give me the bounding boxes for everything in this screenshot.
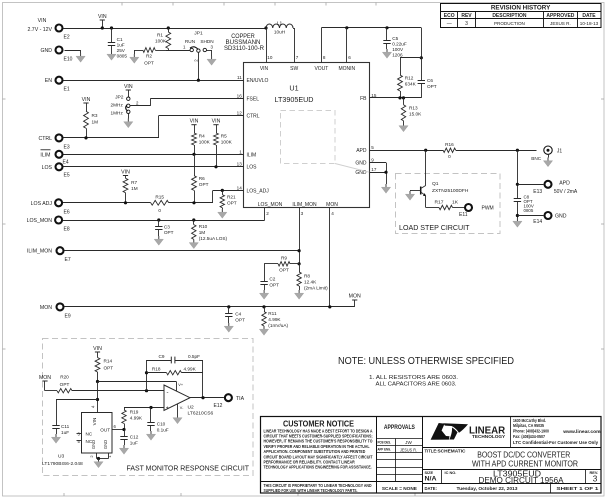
svg-text:R20: R20 bbox=[60, 375, 69, 380]
svg-text:SUPPLIED FOR USE WITH LINEAR T: SUPPLIED FOR USE WITH LINEAR TECHNOLOGY … bbox=[264, 488, 358, 493]
resistor R10 bbox=[189, 220, 227, 249]
resistor R14 bbox=[93, 346, 113, 382]
svg-text:E1: E1 bbox=[64, 87, 70, 93]
svg-text:OPT: OPT bbox=[144, 61, 154, 66]
svg-text:ILIM_MON: ILIM_MON bbox=[27, 249, 52, 255]
svg-text:BNC: BNC bbox=[531, 156, 542, 161]
wire EN row bbox=[64, 79, 244, 82]
svg-text:JESUS R.: JESUS R. bbox=[400, 447, 417, 452]
terminal E6 LOS ADJ bbox=[31, 199, 70, 215]
svg-text:GND: GND bbox=[91, 440, 96, 449]
svg-text:EN/UVLO: EN/UVLO bbox=[247, 78, 269, 84]
svg-text:R17: R17 bbox=[435, 199, 444, 205]
svg-text:R18: R18 bbox=[152, 366, 161, 371]
svg-text:Q1: Q1 bbox=[432, 181, 439, 187]
svg-text:OPT: OPT bbox=[164, 230, 174, 235]
wire LOS_ADJ row bbox=[63, 189, 244, 205]
U1 exposed pad bbox=[281, 111, 370, 173]
svg-text:1M: 1M bbox=[131, 186, 138, 191]
svg-text:100K: 100K bbox=[155, 39, 167, 44]
size ic rev row bbox=[423, 470, 602, 485]
svg-text:+: + bbox=[166, 406, 169, 412]
wire VOUT rail bbox=[321, 28, 421, 63]
svg-text:R8: R8 bbox=[304, 274, 310, 279]
svg-text:(2mA Limit): (2mA Limit) bbox=[304, 286, 328, 291]
terminal E9 MON bbox=[40, 303, 71, 319]
capacitor C10 bbox=[146, 408, 168, 441]
svg-text:5: 5 bbox=[371, 145, 374, 150]
resistor R3 bbox=[82, 97, 98, 138]
svg-text:FB: FB bbox=[360, 96, 367, 102]
resistor R20 bbox=[45, 375, 164, 393]
svg-text:SHDN: SHDN bbox=[200, 39, 213, 44]
svg-text:MON: MON bbox=[39, 375, 51, 381]
terminal E13 APD bbox=[517, 180, 578, 195]
svg-text:ZXTN25100DFH: ZXTN25100DFH bbox=[432, 188, 469, 194]
svg-text:CTRL: CTRL bbox=[247, 113, 260, 119]
resistor R18 bbox=[145, 366, 203, 398]
resistor R5 bbox=[212, 119, 233, 167]
terminal E3 CTRL bbox=[38, 134, 69, 150]
svg-text:14: 14 bbox=[237, 185, 243, 190]
svg-text:OPT: OPT bbox=[60, 382, 70, 387]
svg-text:DATE: DATE bbox=[582, 13, 596, 19]
resistor R13 bbox=[399, 98, 422, 132]
svg-text:MON: MON bbox=[349, 294, 361, 300]
svg-text:OPT: OPT bbox=[269, 283, 279, 288]
svg-text:-: - bbox=[167, 390, 169, 396]
svg-text:PWM: PWM bbox=[482, 205, 494, 211]
svg-text:VIN: VIN bbox=[93, 346, 102, 352]
svg-text:E14: E14 bbox=[533, 219, 542, 225]
svg-text:3: 3 bbox=[301, 211, 304, 216]
svg-text:VIN: VIN bbox=[121, 170, 130, 176]
svg-text:APPROVED: APPROVED bbox=[546, 13, 574, 19]
svg-text:VIN: VIN bbox=[260, 66, 269, 72]
capacitor C1 bbox=[107, 26, 128, 60]
svg-text:E11: E11 bbox=[459, 212, 468, 218]
svg-text:50V / 2mA: 50V / 2mA bbox=[554, 189, 578, 195]
svg-text:ILIM_MON: ILIM_MON bbox=[292, 202, 317, 208]
svg-text:FAST MONITOR RESPONSE CIRCUIT: FAST MONITOR RESPONSE CIRCUIT bbox=[127, 464, 250, 473]
svg-text:17: 17 bbox=[371, 167, 377, 172]
terminal E4 ILIM bbox=[40, 150, 68, 166]
svg-text:C9: C9 bbox=[159, 354, 165, 359]
IC U3 LT1790 bbox=[42, 382, 117, 468]
svg-text:WITH APD CURRENT MONITOR: WITH APD CURRENT MONITOR bbox=[472, 460, 578, 469]
svg-text:EN: EN bbox=[45, 78, 52, 84]
svg-text:4.99K: 4.99K bbox=[184, 366, 197, 371]
svg-text:U1: U1 bbox=[289, 84, 298, 93]
svg-text:V+: V+ bbox=[178, 383, 184, 387]
transistor Q1 ZXTN25100DFH bbox=[405, 150, 468, 207]
svg-text:APP ENG.: APP ENG. bbox=[378, 447, 392, 452]
svg-text:APPROVALS: APPROVALS bbox=[384, 424, 416, 431]
svg-text:LT3905EUD: LT3905EUD bbox=[275, 95, 314, 104]
svg-text:634K: 634K bbox=[405, 82, 417, 87]
load step circuit box bbox=[396, 174, 501, 234]
svg-text:LOS ADJ: LOS ADJ bbox=[31, 201, 53, 207]
terminal E1 EN bbox=[45, 77, 70, 93]
approvals block bbox=[376, 424, 422, 491]
label copper bussmann bbox=[224, 34, 265, 52]
svg-text:NOTE: UNLESS OTHERWISE SPECIFI: NOTE: UNLESS OTHERWISE SPECIFIED bbox=[338, 356, 514, 367]
svg-text:SD3110-100-R: SD3110-100-R bbox=[224, 46, 265, 52]
fast monitor circuit box bbox=[43, 339, 254, 476]
svg-text:E7: E7 bbox=[65, 257, 71, 263]
wire APD row bbox=[369, 149, 536, 152]
resistor R11 bbox=[259, 307, 288, 335]
svg-text:TIA: TIA bbox=[236, 396, 245, 402]
svg-text:1uF: 1uF bbox=[117, 43, 125, 48]
svg-text:Milpitas, CA 95035: Milpitas, CA 95035 bbox=[513, 423, 544, 428]
svg-text:C3: C3 bbox=[164, 225, 170, 230]
node MON flag 2 bbox=[39, 375, 51, 391]
svg-text:E5: E5 bbox=[64, 173, 70, 179]
svg-text:JW: JW bbox=[405, 440, 412, 445]
svg-text:0.5pF: 0.5pF bbox=[188, 354, 200, 359]
svg-text:VIN: VIN bbox=[98, 14, 107, 20]
terminal E8 LOS_MON bbox=[27, 217, 70, 233]
svg-text:8: 8 bbox=[323, 55, 326, 60]
svg-text:www.linear.com: www.linear.com bbox=[562, 429, 601, 435]
svg-text:10-18-13: 10-18-13 bbox=[580, 21, 599, 26]
wire MON row bbox=[65, 208, 355, 309]
wire E10 to ground bbox=[65, 50, 86, 62]
svg-text:PRODUCTION: PRODUCTION bbox=[494, 21, 525, 26]
svg-text:TECHNOLOGY APPLICATIONS ENGINE: TECHNOLOGY APPLICATIONS ENGINEERING FOR … bbox=[264, 465, 372, 470]
wire plus input bbox=[124, 406, 164, 409]
resistor R12 bbox=[398, 56, 423, 98]
svg-text:0805: 0805 bbox=[524, 208, 534, 213]
svg-text:N/A: N/A bbox=[425, 476, 437, 483]
svg-text:CUSTOMER NOTICE: CUSTOMER NOTICE bbox=[283, 420, 354, 429]
svg-text:2: 2 bbox=[266, 211, 269, 216]
svg-text:GND: GND bbox=[103, 440, 108, 449]
svg-text:ILIM: ILIM bbox=[40, 152, 50, 158]
wire VIN rail bbox=[64, 28, 267, 30]
svg-text:1206: 1206 bbox=[392, 53, 403, 58]
svg-text:15.0K: 15.0K bbox=[409, 112, 422, 117]
svg-text:RUN: RUN bbox=[185, 39, 195, 44]
resistor R6 bbox=[192, 154, 209, 203]
wire C8 column bbox=[513, 150, 522, 227]
svg-text:0: 0 bbox=[448, 154, 451, 159]
capacitor C9 bbox=[147, 354, 204, 391]
wire op-amp output bbox=[190, 396, 224, 399]
resistor R2 bbox=[130, 48, 166, 66]
svg-text:0805: 0805 bbox=[117, 54, 128, 59]
svg-text:E6: E6 bbox=[64, 209, 70, 215]
svg-text:FSEL: FSEL bbox=[247, 96, 260, 102]
svg-text:E10: E10 bbox=[64, 57, 73, 63]
svg-text:GND: GND bbox=[355, 161, 367, 167]
svg-text:E3: E3 bbox=[64, 144, 70, 150]
svg-text:4.99K: 4.99K bbox=[268, 317, 281, 322]
svg-text:LOS_ADJ: LOS_ADJ bbox=[247, 188, 270, 194]
wire pin10 VIN bbox=[266, 28, 268, 63]
svg-text:C4: C4 bbox=[235, 312, 241, 317]
svg-text:C10: C10 bbox=[157, 422, 166, 427]
svg-text:SW: SW bbox=[290, 66, 298, 72]
svg-text:SHEET 1 OF 1: SHEET 1 OF 1 bbox=[556, 486, 599, 491]
svg-text:R1: R1 bbox=[157, 33, 163, 38]
svg-text:1M: 1M bbox=[199, 230, 206, 235]
resistor R1 bbox=[155, 26, 171, 50]
svg-text:100K: 100K bbox=[199, 140, 211, 145]
svg-text:1MHz: 1MHz bbox=[111, 111, 124, 116]
svg-text:CTRL: CTRL bbox=[38, 136, 52, 142]
svg-text:0.22uF: 0.22uF bbox=[392, 42, 407, 47]
svg-text:JP1: JP1 bbox=[194, 31, 203, 37]
node VIN flag bbox=[98, 14, 107, 30]
svg-text:4: 4 bbox=[331, 211, 334, 216]
svg-text:SCALE = NONE: SCALE = NONE bbox=[382, 486, 417, 491]
jumper JP1 bbox=[166, 31, 216, 81]
svg-text:E8: E8 bbox=[64, 227, 70, 233]
svg-text:R10: R10 bbox=[199, 224, 208, 229]
svg-text:R7: R7 bbox=[131, 180, 137, 185]
svg-text:C12: C12 bbox=[130, 435, 139, 440]
svg-text:R13: R13 bbox=[409, 106, 418, 111]
wire U3 ground pins bbox=[94, 453, 109, 468]
svg-text:C1: C1 bbox=[117, 37, 123, 42]
wire LOS_MON row bbox=[63, 208, 265, 222]
svg-text:R11: R11 bbox=[268, 311, 277, 316]
svg-text:2MHz: 2MHz bbox=[111, 103, 124, 108]
wire U3 vin feed bbox=[56, 400, 98, 426]
terminal E5 LOS bbox=[42, 163, 70, 178]
jumper JP2 bbox=[111, 84, 139, 128]
resistor R15 bbox=[151, 195, 169, 214]
wire CTRL row bbox=[64, 115, 244, 139]
terminal E2 VIN bbox=[27, 18, 69, 41]
wire FSEL row bbox=[130, 98, 244, 106]
resistor R7 bbox=[121, 170, 138, 203]
svg-text:REV: REV bbox=[461, 13, 472, 19]
svg-text:(12.5uA LOS): (12.5uA LOS) bbox=[199, 236, 228, 241]
svg-text:APD: APD bbox=[559, 180, 570, 186]
svg-text:MON: MON bbox=[326, 202, 338, 208]
wire pin6 MONIN bbox=[345, 26, 348, 63]
revision history table bbox=[441, 4, 602, 28]
svg-text:ALL CAPACITORS ARE 0603.: ALL CAPACITORS ARE 0603. bbox=[376, 382, 457, 388]
svg-text:E2: E2 bbox=[64, 35, 70, 41]
capacitor C6 bbox=[418, 58, 437, 98]
svg-text:3: 3 bbox=[593, 475, 598, 484]
terminal E7 ILIM_MON bbox=[27, 247, 71, 263]
svg-text:R6: R6 bbox=[199, 176, 205, 181]
svg-text:12: 12 bbox=[237, 110, 243, 115]
inductor L1 bbox=[264, 21, 293, 35]
svg-text:R16: R16 bbox=[445, 142, 454, 147]
svg-text:U2: U2 bbox=[188, 404, 195, 410]
svg-text:1M: 1M bbox=[92, 120, 99, 125]
resistor R4 bbox=[190, 119, 211, 155]
svg-text:SCHEMATIC: SCHEMATIC bbox=[438, 448, 467, 453]
svg-text:9: 9 bbox=[371, 158, 374, 163]
svg-text:VIN: VIN bbox=[190, 119, 199, 125]
capacitor C2 bbox=[260, 264, 280, 299]
svg-text:LOAD STEP CIRCUIT: LOAD STEP CIRCUIT bbox=[399, 223, 470, 232]
svg-text:C6: C6 bbox=[427, 78, 433, 83]
svg-text:OUT: OUT bbox=[100, 428, 110, 433]
svg-text:Phone: (408)432-1900: Phone: (408)432-1900 bbox=[513, 429, 549, 434]
svg-text:OPT: OPT bbox=[279, 268, 289, 273]
svg-text:0.1uF: 0.1uF bbox=[157, 428, 169, 433]
svg-text:LTC Confidential-For Customer: LTC Confidential-For Customer Use Only bbox=[513, 440, 599, 445]
svg-text:16: 16 bbox=[237, 93, 243, 98]
svg-text:JP2: JP2 bbox=[115, 94, 124, 100]
op-amp U2 LT6210CS6 bbox=[164, 383, 214, 424]
svg-text:1uF: 1uF bbox=[130, 441, 138, 446]
connector J1 BNC bbox=[531, 146, 562, 167]
svg-text:VIN: VIN bbox=[82, 97, 91, 103]
svg-text:VOUT: VOUT bbox=[314, 66, 328, 72]
svg-text:OPT: OPT bbox=[199, 182, 209, 187]
svg-text:MON: MON bbox=[40, 305, 52, 311]
wire ILIM_MON row bbox=[65, 208, 301, 266]
svg-text:—: — bbox=[447, 21, 452, 27]
wire LOS row bbox=[64, 165, 244, 168]
svg-text:R12: R12 bbox=[405, 76, 414, 81]
svg-text:R21: R21 bbox=[227, 195, 236, 200]
svg-text:DATE:: DATE: bbox=[425, 486, 437, 491]
svg-text:ILIM: ILIM bbox=[247, 152, 257, 158]
svg-text:R14: R14 bbox=[104, 359, 113, 364]
svg-text:APD: APD bbox=[356, 148, 367, 154]
svg-text:OPT: OPT bbox=[104, 366, 114, 371]
svg-text:IC NO.: IC NO. bbox=[445, 470, 457, 475]
wire FB row bbox=[369, 96, 421, 99]
svg-text:LOS: LOS bbox=[42, 165, 53, 171]
svg-text:E9: E9 bbox=[65, 313, 71, 319]
title area bbox=[423, 448, 602, 469]
svg-text:6: 6 bbox=[348, 55, 351, 60]
svg-text:10: 10 bbox=[267, 55, 273, 60]
svg-text:SIZE: SIZE bbox=[425, 470, 434, 475]
svg-text:NC: NC bbox=[86, 432, 93, 437]
svg-text:C5: C5 bbox=[392, 36, 398, 41]
svg-text:Fax: (408)434-0507: Fax: (408)434-0507 bbox=[513, 434, 545, 439]
svg-text:E4: E4 bbox=[63, 160, 69, 166]
terminal E12 TIA bbox=[214, 394, 245, 409]
svg-text:3: 3 bbox=[465, 21, 468, 27]
svg-text:(1mV/uA): (1mV/uA) bbox=[268, 323, 288, 328]
customer notice text bbox=[264, 420, 374, 494]
svg-text:JESUS R.: JESUS R. bbox=[550, 21, 571, 26]
note text bbox=[338, 356, 514, 388]
svg-text:1: 1 bbox=[239, 149, 242, 154]
capacitor C4 bbox=[224, 307, 245, 332]
resistor R8 bbox=[295, 264, 329, 299]
svg-text:R3: R3 bbox=[92, 113, 98, 118]
svg-text:Tuesday, October 22, 2013: Tuesday, October 22, 2013 bbox=[457, 486, 518, 492]
svg-text:U3: U3 bbox=[58, 454, 65, 460]
wire U3 out bbox=[112, 428, 126, 431]
svg-text:VIN: VIN bbox=[38, 18, 47, 24]
svg-text:12.4K: 12.4K bbox=[304, 280, 317, 285]
IC U1 LT3905EUD bbox=[237, 55, 377, 216]
svg-text:TITLE:: TITLE: bbox=[425, 448, 438, 453]
svg-text:OPT: OPT bbox=[427, 84, 437, 89]
svg-text:LT6210CS6: LT6210CS6 bbox=[188, 411, 214, 417]
resistor R16 bbox=[443, 142, 456, 159]
resistor R19 bbox=[122, 408, 143, 430]
svg-text:0: 0 bbox=[158, 208, 161, 213]
svg-text:LT1790BIS6-2.048: LT1790BIS6-2.048 bbox=[42, 461, 83, 467]
svg-text:R19: R19 bbox=[130, 410, 139, 415]
wire V+ supply bbox=[96, 380, 177, 391]
title block bbox=[261, 417, 602, 494]
terminal E14 GND bbox=[517, 212, 566, 225]
svg-text:25V: 25V bbox=[117, 48, 126, 53]
capacitor C8 bbox=[514, 194, 534, 213]
wire pin7 SW bbox=[293, 28, 295, 63]
svg-text:OPT: OPT bbox=[235, 318, 245, 323]
node MON flag bbox=[349, 294, 361, 307]
svg-text:J1: J1 bbox=[557, 148, 563, 154]
svg-text:GND: GND bbox=[40, 48, 52, 54]
terminal E10 GND bbox=[40, 47, 72, 63]
wire ILIM row bbox=[64, 153, 244, 156]
svg-text:100V: 100V bbox=[392, 47, 404, 52]
svg-text:PCB DES.: PCB DES. bbox=[378, 440, 392, 445]
linear technology logo bbox=[431, 417, 602, 448]
svg-text:C11: C11 bbox=[61, 424, 70, 429]
resistor R21 bbox=[218, 190, 237, 218]
svg-text:10uH: 10uH bbox=[274, 30, 285, 35]
capacitor C3 bbox=[154, 220, 173, 245]
svg-text:1K: 1K bbox=[452, 199, 459, 205]
svg-text:BOOST DC/DC CONVERTER: BOOST DC/DC CONVERTER bbox=[477, 451, 570, 460]
svg-text:R5: R5 bbox=[221, 134, 227, 139]
svg-text:1630 McCarthy Blvd.: 1630 McCarthy Blvd. bbox=[513, 418, 546, 423]
svg-text:VIN: VIN bbox=[124, 84, 133, 90]
svg-text:DESCRIPTION: DESCRIPTION bbox=[492, 13, 527, 19]
svg-text:ECO: ECO bbox=[444, 13, 455, 19]
svg-text:E12: E12 bbox=[214, 403, 223, 409]
svg-text:L1: L1 bbox=[277, 21, 283, 27]
capacitor C5 bbox=[382, 26, 407, 58]
svg-text:7: 7 bbox=[296, 55, 299, 60]
svg-text:13: 13 bbox=[237, 162, 243, 167]
terminal E11 PWM bbox=[459, 204, 494, 218]
svg-text:LOS: LOS bbox=[247, 165, 258, 171]
svg-text:1. ALL RESISTORS ARE 0603.: 1. ALL RESISTORS ARE 0603. bbox=[369, 375, 458, 381]
svg-text:LOS_MON: LOS_MON bbox=[258, 202, 283, 208]
svg-text:VIN: VIN bbox=[212, 119, 221, 125]
svg-text:R2: R2 bbox=[146, 54, 152, 59]
svg-text:GND: GND bbox=[555, 213, 567, 219]
svg-text:MONIN: MONIN bbox=[338, 66, 355, 72]
svg-text:E13: E13 bbox=[533, 189, 542, 195]
svg-text:LOS_MON: LOS_MON bbox=[27, 218, 53, 224]
svg-text:TECHNOLOGY: TECHNOLOGY bbox=[472, 434, 506, 440]
svg-text:R9: R9 bbox=[281, 256, 287, 261]
svg-text:VIN: VIN bbox=[92, 418, 97, 426]
resistor R17 bbox=[426, 199, 464, 209]
svg-text:100K: 100K bbox=[221, 140, 233, 145]
capacitor C11 bbox=[51, 424, 69, 443]
svg-text:4.99K: 4.99K bbox=[130, 416, 143, 421]
svg-text:2.7V - 12V: 2.7V - 12V bbox=[27, 27, 52, 33]
svg-text:OPT: OPT bbox=[227, 201, 237, 206]
date row bbox=[423, 484, 602, 494]
svg-text:11: 11 bbox=[237, 75, 242, 80]
svg-text:REVISION HISTORY: REVISION HISTORY bbox=[491, 5, 551, 12]
resistor R9 bbox=[264, 256, 299, 273]
